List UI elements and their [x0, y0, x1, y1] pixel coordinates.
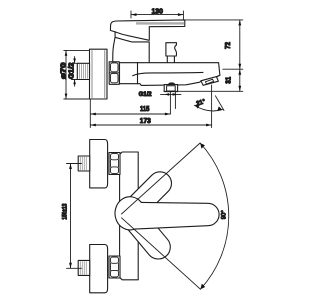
90 degree arc: [200, 143, 229, 289]
dim ø70: [64, 50, 90, 99]
hose connector G1/2 (under spout): [164, 85, 177, 92]
escutcheon flange ø70: [90, 49, 108, 99]
svg-text:ø70: ø70: [61, 62, 68, 79]
bottom wall connector: [78, 260, 90, 275]
svg-text:72: 72: [225, 42, 232, 49]
handle boss + centre lever fills: [115, 197, 219, 230]
svg-text:130: 130: [151, 9, 163, 16]
svg-text:90°: 90°: [221, 210, 227, 220]
bottom union nut: [109, 256, 120, 278]
fan boundary lines: [122, 143, 201, 289]
handle up position: [118, 167, 176, 225]
centre lever outline: [135, 202, 219, 229]
handle down position: [118, 202, 176, 264]
angle 21 callout: [194, 85, 224, 128]
svg-text:G1/2: G1/2: [69, 62, 76, 79]
wall connector G1/2: [77, 63, 89, 79]
body (plan view): [120, 152, 139, 280]
lever handle (side view): [110, 20, 184, 40]
svg-text:31: 31: [225, 77, 232, 84]
top union nut: [109, 153, 120, 175]
dim 130: [131, 11, 183, 19]
seam body/spout: [137, 63, 139, 84]
spout inner contour: [133, 72, 203, 75]
svg-text:115: 115: [140, 106, 150, 113]
svg-text:G1/2: G1/2: [139, 91, 152, 98]
valve body: [113, 32, 149, 63]
dim 72: [182, 20, 242, 69]
top flange: [90, 140, 108, 188]
boss outline arc: [115, 197, 141, 230]
svg-text:173: 173: [140, 118, 151, 125]
aerator: [201, 77, 218, 86]
dim 115: [90, 99, 170, 128]
dim 173: [90, 124, 211, 126]
dim G1/2 left: [72, 57, 79, 87]
svg-text:150±13: 150±13: [62, 203, 69, 219]
bottom flange: [90, 245, 108, 293]
dim 31: [164, 69, 243, 91]
union nut (side view): [109, 62, 119, 85]
dim 150±13: [67, 164, 82, 269]
diverter knob: [166, 43, 177, 56]
spout barrel: [120, 63, 220, 86]
lever top grey strip: [136, 22, 184, 24]
top wall connector: [78, 156, 90, 171]
